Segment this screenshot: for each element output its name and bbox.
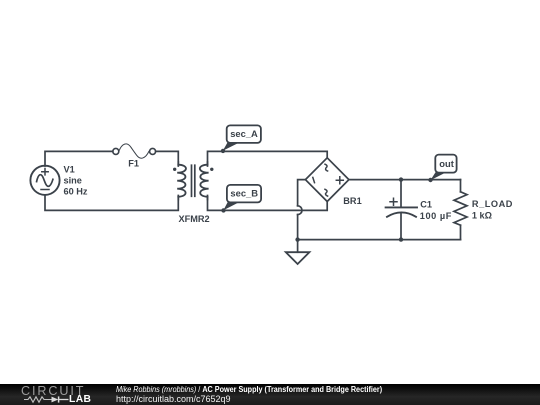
footer title line <box>116 385 382 394</box>
junction node at ground <box>295 237 299 241</box>
AC mark bottom <box>325 189 328 196</box>
svg-text:F1: F1 <box>128 159 139 169</box>
svg-text:sine: sine <box>64 175 82 185</box>
svg-text:C1: C1 <box>420 200 432 210</box>
svg-text:V1: V1 <box>64 164 75 174</box>
svg-text:sec_A: sec_A <box>230 128 258 139</box>
label R_LOAD value <box>472 199 513 221</box>
AC mark top <box>325 164 328 171</box>
secondary winding <box>200 165 209 197</box>
minus mark left <box>313 177 315 182</box>
footer bar <box>0 384 540 405</box>
wire fuse to transformer primary <box>156 151 179 164</box>
capacitor C1 <box>386 180 417 240</box>
primary wire stubs <box>177 162 179 200</box>
bridge rectifier BR1 <box>305 158 349 202</box>
label BR1 <box>343 196 361 206</box>
label C1 value <box>420 200 452 221</box>
junction node C1 bottom <box>399 237 403 241</box>
label F1 <box>128 159 139 169</box>
footer url line <box>116 394 231 404</box>
wire bridge plus to out rail <box>349 179 461 181</box>
label V1 value <box>64 164 88 196</box>
polarity dot primary <box>173 168 176 171</box>
secondary wire stubs <box>207 162 209 200</box>
primary winding <box>177 165 186 197</box>
svg-text:60 Hz: 60 Hz <box>64 187 88 197</box>
svg-text:1 kΩ: 1 kΩ <box>472 211 492 221</box>
svg-text:R_LOAD: R_LOAD <box>472 199 513 209</box>
svg-text:100 µF: 100 µF <box>420 211 452 221</box>
svg-text:sec_B: sec_B <box>230 187 258 198</box>
fuse F1 <box>113 144 156 158</box>
plus mark right <box>336 177 343 184</box>
label XFMR2 <box>179 214 210 224</box>
polarity dot secondary <box>210 168 213 171</box>
wire primary bottom to V1 <box>45 195 178 210</box>
wire secondary top to bridge AC1 (net sec_A) <box>208 151 328 164</box>
svg-text:XFMR2: XFMR2 <box>179 214 210 224</box>
voltage source V1 <box>30 166 59 195</box>
svg-text:out: out <box>439 158 454 169</box>
node flag sec_B <box>221 185 261 213</box>
wire bridge minus to ground rail with hop <box>298 180 306 240</box>
resistor R_LOAD <box>454 180 467 240</box>
node flag out <box>428 155 456 183</box>
junction node C1 top <box>399 177 403 181</box>
ground <box>286 240 310 264</box>
wire bottom rail <box>298 239 461 241</box>
wire secondary bottom to bridge AC2 (net sec_B) <box>208 197 328 211</box>
node flag sec_A <box>221 125 261 153</box>
circuitlab logo text CIRCUIT <box>21 384 85 398</box>
circuitlab logo text LAB <box>69 394 91 405</box>
svg-text:BR1: BR1 <box>343 196 361 206</box>
wire V1 top to fuse <box>45 151 113 166</box>
transformer XFMR2 <box>173 162 214 200</box>
circuitlab logo resistor-diode glyph <box>20 394 72 405</box>
plus sign <box>390 198 397 205</box>
core <box>192 165 195 196</box>
